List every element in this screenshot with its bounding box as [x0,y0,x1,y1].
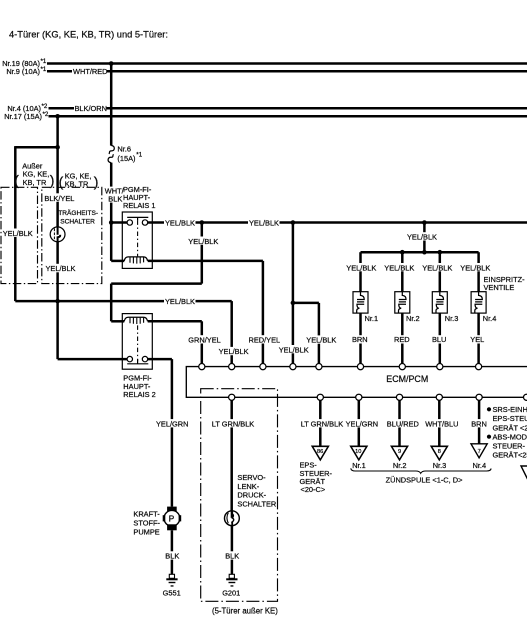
label BLK/YEL [44,193,75,203]
svg-text:BLU: BLU [432,335,446,344]
relay1 contact circles [127,220,148,225]
svg-text:Nr.17 (15A): Nr.17 (15A) [4,112,42,121]
wire left loop horizontal [15,145,60,150]
wire vertical from bus at 201.8 down [201,223,204,284]
relay1 coil wire left vertical end [111,260,124,263]
injector Nr.1 symbol [353,292,368,313]
relay1 coil wire right RED/YEL [148,261,263,364]
wire below servo switch [231,526,234,575]
relay2 coil wire right GRN/YEL [148,321,202,363]
wire zuendspule drop Nr.4 [478,400,481,446]
label YEL/BLK on 318.9 [306,335,337,344]
svg-text:BRN: BRN [352,335,368,344]
ECM/PCM box [186,367,527,398]
svg-text:Nr.3: Nr.3 [445,314,459,323]
svg-text:STEUER-: STEUER- [493,442,526,451]
fuse label Nr.6 (15A) [117,145,142,164]
injector Nr.3 drop [439,252,442,363]
injector Nr.1 drop [359,252,362,363]
wire inertia branch vertical [56,147,59,227]
wire vertical WHT/BLK fuse to relay1 area [110,163,113,261]
label BLK pump [165,551,180,560]
label YEL/BLK inj3 [422,263,453,272]
brace under zuendspule [351,468,491,473]
fuse label Nr.17 [4,111,49,121]
wire vertical 111.2 to relay2 coil [110,284,113,322]
label LT GRN/BLK EPS [300,419,343,428]
svg-text:Nr.3: Nr.3 [433,461,447,470]
svg-text:Nr.4: Nr.4 [483,314,497,323]
text Ausser (KG,KE,KB,TR) [14,161,54,188]
ECM bottom pins [229,394,527,400]
text TRAEGHEITS-SCHALTER [58,209,98,225]
svg-text:Nr.4: Nr.4 [473,461,487,470]
label GRN/YEL [188,335,221,344]
relay1 actuation link dash [137,220,139,256]
svg-text:G551: G551 [163,588,181,597]
svg-text:YEL/BLK: YEL/BLK [165,297,195,306]
svg-text:BLK/ORN: BLK/ORN [75,104,107,113]
svg-text:YEL/BLK: YEL/BLK [306,336,336,345]
svg-text:(: ( [14,172,19,188]
svg-text:RELAIS 2: RELAIS 2 [123,390,155,399]
wire junction W4 branch [55,114,60,147]
svg-text:PUMPE: PUMPE [133,527,159,536]
svg-text:LT GRN/BLK: LT GRN/BLK [212,419,255,428]
text EPS-STEUER-GERAET 20-C [300,461,333,495]
svg-text:Nr.2: Nr.2 [393,461,407,470]
svg-text:YEL/BLK: YEL/BLK [346,263,376,272]
label YEL/BLK inj1 [346,263,377,272]
svg-text:YEL/BLK: YEL/BLK [3,229,33,238]
relay1 box PGM-FI-HAUPT-RELAIS 1 [122,212,152,268]
text PGM-FI-HAUPT-RELAIS 1 [123,185,155,210]
svg-text:Nr.2: Nr.2 [406,314,420,323]
injector Nr.4 symbol [471,292,486,313]
svg-text:9: 9 [398,449,401,455]
svg-text:WHT/BLU: WHT/BLU [425,419,458,428]
svg-text:BLK: BLK [108,194,122,203]
svg-text:BLK/YEL: BLK/YEL [44,194,74,203]
svg-text:(15A): (15A) [117,154,135,163]
wire below inertia switch [56,242,59,360]
svg-text:YEL/BLK: YEL/BLK [249,218,279,227]
relay2 coil [124,317,147,324]
svg-text:10: 10 [355,449,361,455]
label YEL/BLK on 231.7 [218,347,249,356]
svg-text:7: 7 [478,449,481,455]
svg-text:YEL/GRN: YEL/GRN [346,419,378,428]
injector Nr.4 drop [477,252,480,363]
svg-text:P: P [169,514,175,524]
label YEL [470,335,487,344]
svg-text:G201: G201 [222,588,240,597]
label YEL/GRN z1 [345,419,378,428]
svg-text:*2: *2 [43,111,49,118]
fuse label Nr.9 [6,66,47,76]
option box left dash-dot [1,187,38,283]
fuse Nr.6 symbol [108,145,114,162]
label BLU [431,335,448,344]
svg-text:SRS-EINHEIT: SRS-EINHEIT [493,405,527,414]
ECM top pins [199,364,482,370]
svg-text:ECM/PCM: ECM/PCM [386,374,428,384]
connector triangle EPS 86 [312,446,328,460]
label BLU/RED z2 [386,419,419,428]
wire vertical WHT/BLK from W1 to fuse Nr.6 [109,61,114,145]
svg-text:KB, TR: KB, TR [23,178,47,187]
servo dash-dot box [201,389,278,602]
connector triangle 7 [471,444,487,458]
label WHT/BLK [104,187,124,204]
svg-text:YEL/BLK: YEL/BLK [46,264,76,273]
wire W2 WHT/RED [47,70,527,73]
YEL/BLK bus segment 2 [196,220,249,225]
label BRN z4 [471,419,487,428]
svg-text:SERVO-: SERVO- [237,473,266,482]
svg-text:BRN: BRN [471,419,487,428]
svg-text:YEL/BLK: YEL/BLK [165,218,195,227]
label YEL/BLK feed [406,232,437,241]
relay1 contact wire left [109,220,127,225]
label WHT/BLU z3 [425,419,459,428]
svg-text:SCHALTER: SCHALTER [60,218,95,225]
svg-text:ZÜNDSPULE ˂1-C, D˃: ZÜNDSPULE ˂1-C, D˃ [386,475,463,484]
relay2 contact circles [127,356,148,361]
label YEL/BLK on 292.9 [278,345,309,354]
label BLK servo [225,551,240,560]
wire W4 [49,115,527,118]
fuse label Nr.19 [2,58,47,68]
text KRAFT-STOFF-PUMPE [133,509,160,536]
label RED [393,335,410,344]
text PGM-FI-HAUPT-RELAIS 2 [123,374,155,399]
wire horizontal 283.6 [111,282,202,285]
svg-text:Nr.6: Nr.6 [117,145,131,154]
inertia switch circle [50,227,65,242]
ground G201 [226,574,237,586]
injector Nr.2 symbol [395,292,410,313]
svg-text:RED/YEL: RED/YEL [249,335,281,344]
option box right dash-dot [42,187,102,283]
relay1 moving bar [127,217,148,220]
label RED/YEL [248,335,280,344]
svg-text:STOFF-: STOFF- [133,518,160,527]
connector triangle 10 [351,446,367,460]
svg-text:Nr.1: Nr.1 [365,314,379,323]
svg-text:Nr.9 (10A): Nr.9 (10A) [6,67,40,76]
svg-text:BLU/RED: BLU/RED [387,419,419,428]
svg-text:*1: *1 [41,66,47,73]
wire branch 318.9 [293,303,319,364]
relay1 contact wire right to bus [148,221,164,224]
wire zuendspule drop Nr.3 [438,400,441,446]
text EINSPRITZ-VENTILE [484,275,526,292]
relay2 contact wire left from inertia branch [58,358,127,361]
text (KG,KE,KB,TR) [59,171,99,189]
svg-text:GRN/YEL: GRN/YEL [188,335,220,344]
svg-text:(5-Türer außer KE): (5-Türer außer KE) [212,607,278,616]
servo pressure switch [225,511,240,526]
svg-text:GERÄT˂25˃: GERÄT˂25˃ [493,451,527,460]
svg-text:YEL: YEL [470,335,484,344]
fuel pump symbol [163,507,182,531]
relay2 actuation link dash [137,325,139,361]
label YEL/BLK inj4 [460,263,491,272]
svg-text:YEL/BLK: YEL/BLK [279,345,309,354]
relay2 moving bar [127,359,148,364]
ground G551 [166,574,177,586]
text SERVO-LENK-DRUCK-SCHALTER [237,473,276,509]
label YEL/BLK below switch [45,264,76,273]
svg-text:SCHALTER: SCHALTER [237,500,276,509]
svg-text:EPS-STEUER: EPS-STEUER [493,414,527,423]
svg-text:VENTILE: VENTILE [484,283,515,292]
wire YEL/BLK y301 part2, corner down at 231.7 [196,301,232,363]
wire below pump [171,530,174,574]
relay1 coil [124,257,147,264]
wire EPS drop [319,400,322,446]
label BRN [351,335,367,344]
svg-text:4-Türer (KG, KE, KB, TR) und 5: 4-Türer (KG, KE, KB, TR) und 5-Türer: [9,30,168,40]
svg-text:YEL/BLK: YEL/BLK [422,263,452,272]
wire YEL/BLK horizontal y301 [15,299,164,304]
wire zuendspule drop Nr.2 [398,400,401,446]
wire W3 BLK/ORN [49,107,527,110]
svg-text:ABS-MODUL: ABS-MODUL [493,432,527,441]
YEL/BLK bus segment 3 to right edge [280,220,527,225]
connector triangle 9 [391,446,407,460]
svg-text:YEL/GRN: YEL/GRN [156,419,188,428]
svg-text:LENK-: LENK- [237,482,259,491]
svg-text:˂20-C˃: ˂20-C˃ [301,485,326,494]
svg-text:86: 86 [317,449,323,455]
injector rail [361,250,479,255]
wire servo drop LT GRN/BLK [230,400,233,511]
svg-text:GERÄT ˂25˃: GERÄT ˂25˃ [493,423,527,432]
svg-text:KRAFT-: KRAFT- [133,509,160,518]
relay2 box PGM-FI-HAUPT-RELAIS 2 [122,314,152,370]
label LT GRN/BLK servo [211,419,254,428]
connector triangle 8 [431,446,447,460]
label YEL/BLK inj2 [384,263,415,272]
label YEL/GRN [155,419,188,428]
svg-text:RED: RED [394,335,410,344]
injector Nr.2 drop [401,252,404,363]
svg-text:RELAIS 1: RELAIS 1 [123,201,155,210]
svg-text:BLK: BLK [225,552,239,561]
svg-text:YEL/BLK: YEL/BLK [219,347,249,356]
svg-text:YEL/BLK: YEL/BLK [384,263,414,272]
wire W1 top bus WHT/RED upper [47,62,527,65]
label YEL/BLK in left box [2,229,33,239]
wire zuendspule drop Nr.1 [358,400,361,446]
svg-text:LT GRN/BLK: LT GRN/BLK [301,419,344,428]
wire relay2 coil left stub [111,320,124,323]
svg-text:BLK: BLK [165,552,179,561]
svg-text:DRUCK-: DRUCK- [237,491,266,500]
text SRS/ABS block [487,405,527,460]
wire left loop vertical YEL/BLK [14,146,17,301]
svg-text:Nr.1: Nr.1 [352,461,366,470]
svg-text:): ) [50,172,55,188]
svg-text:*2: *2 [42,103,48,110]
svg-text:*1: *1 [41,58,47,65]
svg-text:WHT/RED: WHT/RED [73,67,108,76]
svg-text:YEL/BLK: YEL/BLK [188,237,218,246]
svg-text:*1: *1 [136,152,142,159]
relay2 contact wire right to fuel pump [148,359,172,507]
wire injector feed from bus [423,223,426,253]
svg-text:8: 8 [438,449,441,455]
label YEL/BLK on 201.8 [188,237,219,246]
wire vertical 292.9 bus to ECM [291,223,296,364]
injector Nr.3 symbol [432,292,447,313]
svg-text:YEL/BLK: YEL/BLK [460,263,490,272]
connector triangle right edge [521,466,527,480]
svg-text:YEL/BLK: YEL/BLK [407,233,437,242]
svg-text:TRÄGHEITS-: TRÄGHEITS- [58,209,98,217]
fuse label Nr.4 [7,103,48,113]
